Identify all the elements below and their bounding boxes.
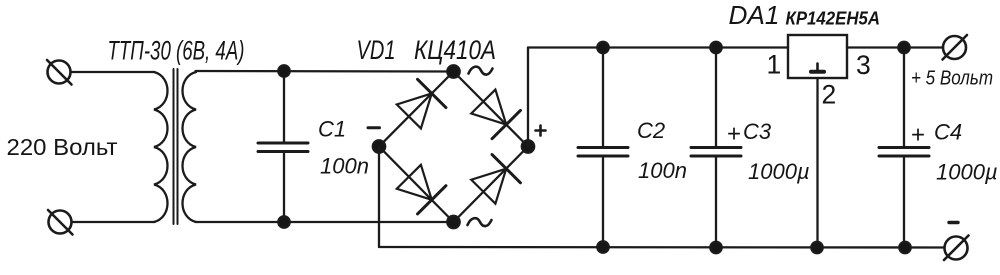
wire: input bottom (X2 to primary winding) (72, 221, 155, 223)
capacitor C3 top lead (715, 48, 717, 147)
wire: bottom minus rail (379, 246, 945, 249)
svg-text:КЦ410А: КЦ410А (414, 35, 496, 65)
node: bridge plus (522, 140, 534, 152)
capacitor C2 plates (578, 148, 628, 157)
AC mark: top tilde (469, 67, 493, 75)
terminal X2 (220V input, bottom) (48, 210, 73, 235)
transformer T1 secondary winding (183, 72, 197, 222)
transformer T1 primary winding (154, 72, 168, 222)
wire: DA1 pin2 to minus rail (816, 78, 818, 248)
wire: bridge plus node up to +rail (527, 48, 529, 147)
svg-text:ТТП-30 (6В, 4А): ТТП-30 (6В, 4А) (108, 36, 245, 66)
capacitor C3 bottom lead (715, 156, 717, 247)
AC mark: bottom tilde (468, 218, 492, 226)
junction: C4 top (898, 42, 909, 53)
polarity mark: bridge minus (368, 126, 380, 129)
terminal X4 (minus output) (944, 236, 969, 261)
junction: C4 bottom (899, 242, 910, 253)
capacitor C1 plates (258, 143, 308, 152)
node: bridge minus (373, 140, 385, 152)
capacitor C1 top lead (283, 71, 285, 142)
diode VD1.3 (395, 163, 446, 214)
svg-text:+: + (727, 121, 741, 148)
wire: +rail from DA1 pin3 to output (847, 46, 943, 48)
svg-text:+: + (911, 122, 925, 149)
svg-text:C2: C2 (637, 118, 665, 143)
wire: secondary bottom rail (to bridge AC bottom) (196, 221, 454, 223)
diode VD1.1 (395, 79, 446, 130)
svg-text:1: 1 (767, 50, 782, 80)
svg-text:220 Вольт: 220 Вольт (7, 134, 118, 160)
svg-text:КР142ЕН5А: КР142ЕН5А (786, 8, 881, 29)
capacitor C2 bottom lead (602, 156, 604, 247)
capacitor C4 bottom lead (903, 156, 905, 248)
regulator DA1 body (788, 35, 847, 78)
junction: C1 top (278, 65, 289, 76)
diode VD1.2 (469, 87, 520, 138)
svg-text:2: 2 (822, 80, 837, 110)
polarity mark: output minus (bottom right) (949, 221, 958, 224)
node: bridge AC bottom (447, 216, 459, 228)
junction: C2 top (597, 42, 608, 53)
svg-text:DA1: DA1 (729, 0, 780, 30)
bridge VD1 arm: AC top to plus node (454, 72, 529, 147)
svg-text:1000µ: 1000µ (936, 160, 998, 185)
bridge VD1 arm: minus node to AC top (379, 72, 454, 147)
junction: C2 bottom (597, 241, 608, 252)
capacitor C4 plates (879, 148, 929, 157)
terminal X1 (220V input, top) (47, 60, 72, 85)
bridge VD1 arm: minus node to AC bottom (379, 147, 454, 223)
svg-text:3: 3 (856, 50, 871, 80)
terminal X3 (+5V output) (943, 35, 968, 60)
polarity mark: bridge plus (536, 126, 546, 136)
diode VD1.4 (469, 155, 520, 206)
regulator DA1 common symbol (811, 64, 824, 72)
capacitor C4 top lead (903, 48, 905, 147)
svg-text:1000µ: 1000µ (748, 159, 810, 184)
svg-text:C4: C4 (934, 120, 962, 145)
svg-text:VD1: VD1 (357, 35, 396, 65)
svg-text:100n: 100n (638, 158, 687, 183)
node: bridge AC top (447, 65, 459, 77)
capacitor C2 top lead (602, 48, 604, 147)
wire: bridge minus node down (378, 147, 380, 248)
svg-text:+ 5 Вольт: + 5 Вольт (911, 67, 993, 90)
junction: DA1 pin2 at minus rail (811, 242, 822, 253)
capacitor C3 plates (691, 148, 741, 157)
junction: C1 bottom (278, 216, 289, 227)
capacitor C1 bottom lead (283, 152, 285, 223)
wire: +rail from bridge to DA1 pin1 (528, 46, 788, 48)
wire: input top (X1 to primary winding) (71, 71, 155, 73)
junction: C3 bottom (710, 242, 721, 253)
svg-text:C1: C1 (318, 117, 346, 142)
transformer T1 core (174, 69, 178, 224)
wire: secondary top rail (to bridge AC top) (196, 70, 454, 73)
bridge VD1 arm: AC bottom to plus node (454, 147, 529, 223)
junction: C3 top (710, 42, 721, 53)
svg-text:C3: C3 (743, 119, 772, 144)
svg-text:100n: 100n (320, 154, 369, 179)
